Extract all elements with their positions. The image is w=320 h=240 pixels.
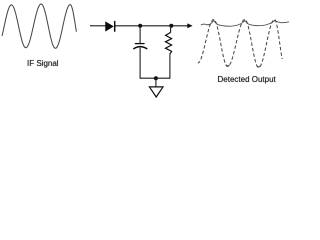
node dot at ground [154,76,158,80]
capacitor C1 top lead [139,26,141,44]
diode D1 [106,21,115,32]
label Detected Output [218,75,276,84]
detected output carrier trough dashes [226,65,229,66]
capacitor C1 bottom lead [139,48,141,79]
arrowhead output [187,23,192,28]
ground stub wire [155,78,157,86]
capacitor C1 plates [133,44,147,49]
wire from source to diode D1 [90,25,106,27]
wire diode to output arrow [115,25,188,27]
detected output envelope [201,21,289,27]
node dot at resistor [169,24,173,28]
IF signal sine wave [2,4,76,48]
bottom wire [140,77,171,79]
resistor R1 top lead [170,26,172,33]
resistor R1 zigzag [166,32,172,54]
detected output carrier (dashed) [198,20,282,68]
node dot at capacitor [138,24,142,28]
label IF Signal [27,59,59,68]
resistor R1 bottom lead [169,54,171,78]
ground symbol [149,87,163,97]
